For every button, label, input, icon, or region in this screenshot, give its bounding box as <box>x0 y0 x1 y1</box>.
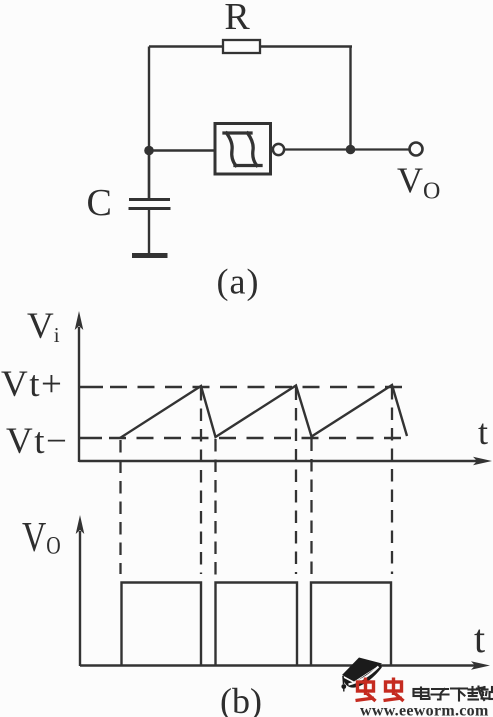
wire output <box>285 148 410 150</box>
dashed timing line x=392 <box>391 387 393 574</box>
watermark graduation cap icon <box>341 658 382 692</box>
svg-text:www.eeworm.com: www.eeworm.com <box>360 703 489 717</box>
watermark site name dianzixiazaizhan <box>414 687 493 701</box>
svg-text:t: t <box>478 412 488 452</box>
wire left vertical <box>148 47 150 200</box>
dashed timing line x=296 <box>295 388 297 575</box>
svg-text:Vi: Vi <box>27 306 60 347</box>
resistor R <box>223 40 260 53</box>
waveform square Vo <box>122 583 392 666</box>
axis Vi vertical with arrow <box>78 327 80 462</box>
wire capacitor top <box>148 150 150 199</box>
dashed timing line x=311.5 <box>310 439 312 576</box>
svg-text:C: C <box>87 182 112 224</box>
wire input <box>149 149 215 152</box>
dashed timing line x=120 <box>119 440 121 574</box>
svg-text:Vt−: Vt− <box>6 421 68 462</box>
svg-text:Vt+: Vt+ <box>1 364 63 405</box>
svg-text:(b): (b) <box>220 681 262 717</box>
terminal Vo open circle <box>410 143 423 156</box>
dashed timing line x=215.5 <box>214 439 216 575</box>
threshold line Vt+ <box>79 386 103 388</box>
svg-text:VO: VO <box>22 515 61 561</box>
threshold line Vt- <box>79 437 102 439</box>
hysteresis symbol <box>224 133 261 166</box>
svg-text:t: t <box>474 616 485 661</box>
axis Vo vertical with arrow <box>79 531 81 666</box>
op-amp U1 Schmitt trigger inverter box <box>215 124 271 175</box>
axis t horizontal of Vi graph with arrow <box>79 460 485 462</box>
svg-text:(a): (a) <box>217 262 260 302</box>
waveform sawtooth Vi <box>120 385 407 438</box>
svg-text:R: R <box>224 0 250 38</box>
inversion bubble <box>273 144 284 155</box>
wire right vertical <box>349 47 351 151</box>
node input junction <box>144 146 154 156</box>
node output junction <box>346 145 356 155</box>
capacitor C <box>129 200 171 209</box>
ground <box>132 253 168 258</box>
axis t horizontal of Vo graph with arrow <box>80 664 483 666</box>
dashed timing line x=201 <box>200 388 202 574</box>
svg-text:VO: VO <box>397 160 440 205</box>
wire capacitor bottom <box>148 209 150 255</box>
wire top feedback <box>149 45 352 47</box>
watermark logo text chongchong <box>356 678 404 702</box>
